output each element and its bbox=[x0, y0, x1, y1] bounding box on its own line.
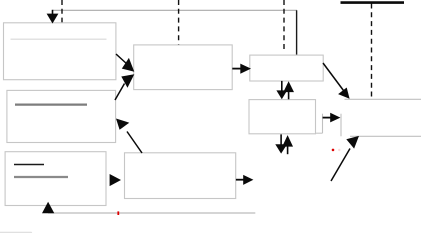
red dot near diagonal bbox=[332, 149, 335, 152]
box 2 bbox=[7, 90, 116, 142]
wire thick black segment top-right bbox=[341, 1, 405, 4]
box 1 bbox=[4, 23, 116, 80]
line inside box 1 bbox=[11, 38, 107, 40]
thick gray line inside box 2 bbox=[15, 103, 87, 105]
arrow up into box 3 from feedback line bbox=[42, 202, 54, 214]
arrow box3 to box5 bbox=[110, 174, 121, 186]
wire top horizontal bus bbox=[53, 9, 298, 11]
arrow up boxB to boxA bbox=[283, 81, 294, 99]
arrow down from boxB bottom bbox=[275, 134, 287, 153]
wire box B bottom extension bbox=[316, 132, 323, 134]
black line inside box 3 bbox=[14, 164, 44, 166]
arrow boxB to right stub bbox=[323, 113, 341, 123]
box 3 bbox=[5, 152, 106, 206]
red marker on feedback line bbox=[117, 211, 119, 215]
arrow down boxA to boxB bbox=[276, 81, 287, 99]
arrow down into box 1 bbox=[47, 10, 59, 24]
faint red dot bbox=[338, 149, 340, 151]
box D top edge line bbox=[350, 135, 421, 137]
dashed line 1 bbox=[61, 0, 63, 23]
arrow box2 to box4 bbox=[115, 74, 134, 100]
arrow box1 to box4 bbox=[116, 54, 134, 72]
dashed line 4 bbox=[371, 4, 373, 98]
arrow box5 to box2 bbox=[116, 119, 142, 154]
box 5 bbox=[125, 153, 236, 199]
wire vertical stub right bbox=[340, 114, 342, 137]
faint line bottom-left corner bbox=[0, 231, 32, 233]
dashed line 2 bbox=[178, 0, 180, 50]
arrow box5 to right bbox=[236, 175, 254, 185]
arrow boxA diagonal to box C line bbox=[323, 63, 350, 99]
box A bbox=[250, 55, 323, 81]
arrow box4 to boxA bbox=[232, 64, 251, 74]
box B bbox=[249, 100, 316, 134]
box C top edge line bbox=[345, 98, 421, 100]
wire bottom feedback line bbox=[48, 212, 255, 214]
wire vertical drop from bus to box A bbox=[296, 10, 298, 57]
gray line inside box 3 bbox=[14, 176, 68, 178]
dashed line 3 bbox=[283, 0, 285, 52]
arrow diagonal up-right to box D line bbox=[331, 136, 359, 181]
wire vertical stub left bbox=[322, 114, 324, 134]
arrow up into boxB bottom bbox=[282, 135, 293, 154]
box 4 bbox=[134, 45, 233, 90]
